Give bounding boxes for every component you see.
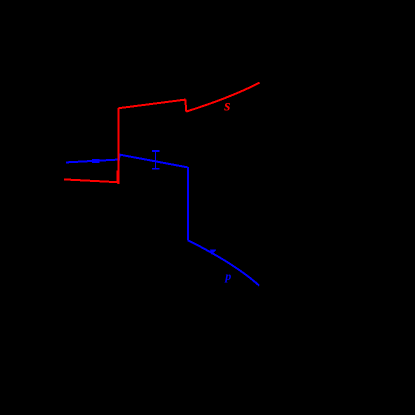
wire: blue vertical drop [187, 167, 189, 240]
wire: blue downstream curve (convex, steepening) [188, 240, 259, 285]
wire: red tail curve (rising, steepening) [186, 83, 259, 112]
svg-text:s: s [223, 98, 230, 115]
wire: red vertical shock line [117, 108, 118, 184]
node: blue error-bar marker [152, 151, 159, 169]
wire: blue upstream segment (left, slightly rising) [66, 160, 118, 163]
wire: red step down [184, 100, 187, 112]
node: blue flow arrowhead on upstream segment [92, 159, 99, 163]
wire: blue mid segment after jump (descending to corner) [119, 155, 188, 168]
svg-text:p: p [224, 269, 231, 283]
wire: red top plateau segment [119, 100, 186, 109]
wire: red upstream segment (left, slightly descending) [64, 179, 118, 182]
node: blue flow arrowhead on downstream curve [210, 249, 217, 254]
